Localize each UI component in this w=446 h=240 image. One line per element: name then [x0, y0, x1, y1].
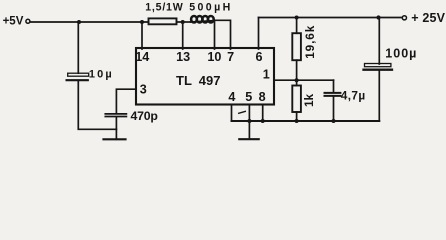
resistor R1 1,5/1W [149, 18, 177, 24]
wire bottom rail [232, 120, 380, 122]
ground left [104, 138, 126, 140]
wire 1k top [296, 80, 298, 85]
terminal +5V [26, 19, 30, 23]
stray mark near pin 4 [239, 111, 246, 113]
resistor R2 19,6k [292, 33, 301, 60]
svg-text:500µH: 500µH [189, 2, 232, 14]
wire 1k bottom [296, 112, 298, 121]
wire pin 1 [274, 79, 334, 81]
capacitor C3 4,7µ [325, 80, 341, 121]
junction pin 8 / bottom rail [261, 119, 265, 123]
junction pin 1 / 1k [295, 78, 299, 82]
wire pin 8 [262, 105, 264, 122]
resistor R3 1k [292, 86, 301, 113]
svg-text:13: 13 [176, 50, 190, 64]
junction 100µ tap [376, 15, 380, 19]
wire 100µ branch bottom [378, 71, 380, 121]
svg-text:6: 6 [255, 50, 262, 64]
svg-text:1: 1 [263, 68, 270, 82]
wire pin 5 [248, 105, 250, 122]
junction 19,6k tap [295, 16, 299, 20]
wire pin 4 [231, 105, 233, 122]
svg-text:470p: 470p [131, 109, 158, 123]
junction 1k / bottom rail [295, 119, 299, 123]
svg-text:+ 25V: + 25V [411, 11, 445, 25]
svg-text:TL 497: TL 497 [176, 73, 220, 88]
wire +5V rail [30, 21, 148, 23]
op-amp U1 TL497 body [136, 48, 274, 105]
svg-text:1,5/1W: 1,5/1W [145, 2, 183, 14]
junction pin 14 tap [140, 20, 144, 24]
wire 19,6k to pin 1 rail [296, 60, 298, 80]
wire pin 3 [116, 89, 136, 113]
wire ground right stem [248, 121, 250, 139]
wire pin 14 [141, 22, 143, 49]
wire 10µ branch [77, 22, 79, 73]
junction 10µ tap [77, 20, 81, 24]
wire 100µ branch top [378, 18, 380, 65]
svg-text:14: 14 [135, 50, 149, 64]
svg-text:5: 5 [245, 90, 252, 104]
wire 10µ to ground node [78, 81, 116, 129]
inductor L1 500µH [191, 16, 215, 22]
svg-text:4,7µ: 4,7µ [341, 88, 366, 102]
junction pin 13 tap [181, 20, 185, 24]
svg-text:1k: 1k [302, 93, 316, 107]
wire 470p to ground [115, 117, 117, 139]
terminal +25V [402, 16, 406, 20]
ground right [239, 138, 258, 140]
junction pin 5 / bottom rail [247, 119, 251, 123]
wire pin 6 riser [258, 18, 260, 50]
wire +25V rail [259, 17, 403, 19]
svg-text:10: 10 [207, 50, 221, 64]
svg-text:100µ: 100µ [385, 46, 417, 60]
wire pin 13 [182, 22, 184, 49]
svg-text:+5V: +5V [3, 16, 24, 28]
capacitor C4 100µ [364, 64, 393, 70]
junction 4,7µ / bottom rail [332, 119, 336, 123]
wire R1 to L1 [177, 21, 191, 23]
svg-text:10µ: 10µ [89, 68, 114, 80]
capacitor C2 470p [105, 114, 126, 117]
wire to 19,6k [296, 18, 298, 34]
wire coil to pin 10 and pin 7 [215, 20, 231, 49]
svg-text:4: 4 [228, 90, 235, 104]
svg-text:19,6k: 19,6k [303, 25, 317, 59]
svg-text:3: 3 [140, 83, 147, 97]
capacitor C1 10µ [67, 73, 89, 80]
svg-text:7: 7 [227, 50, 234, 64]
svg-text:8: 8 [259, 90, 266, 104]
